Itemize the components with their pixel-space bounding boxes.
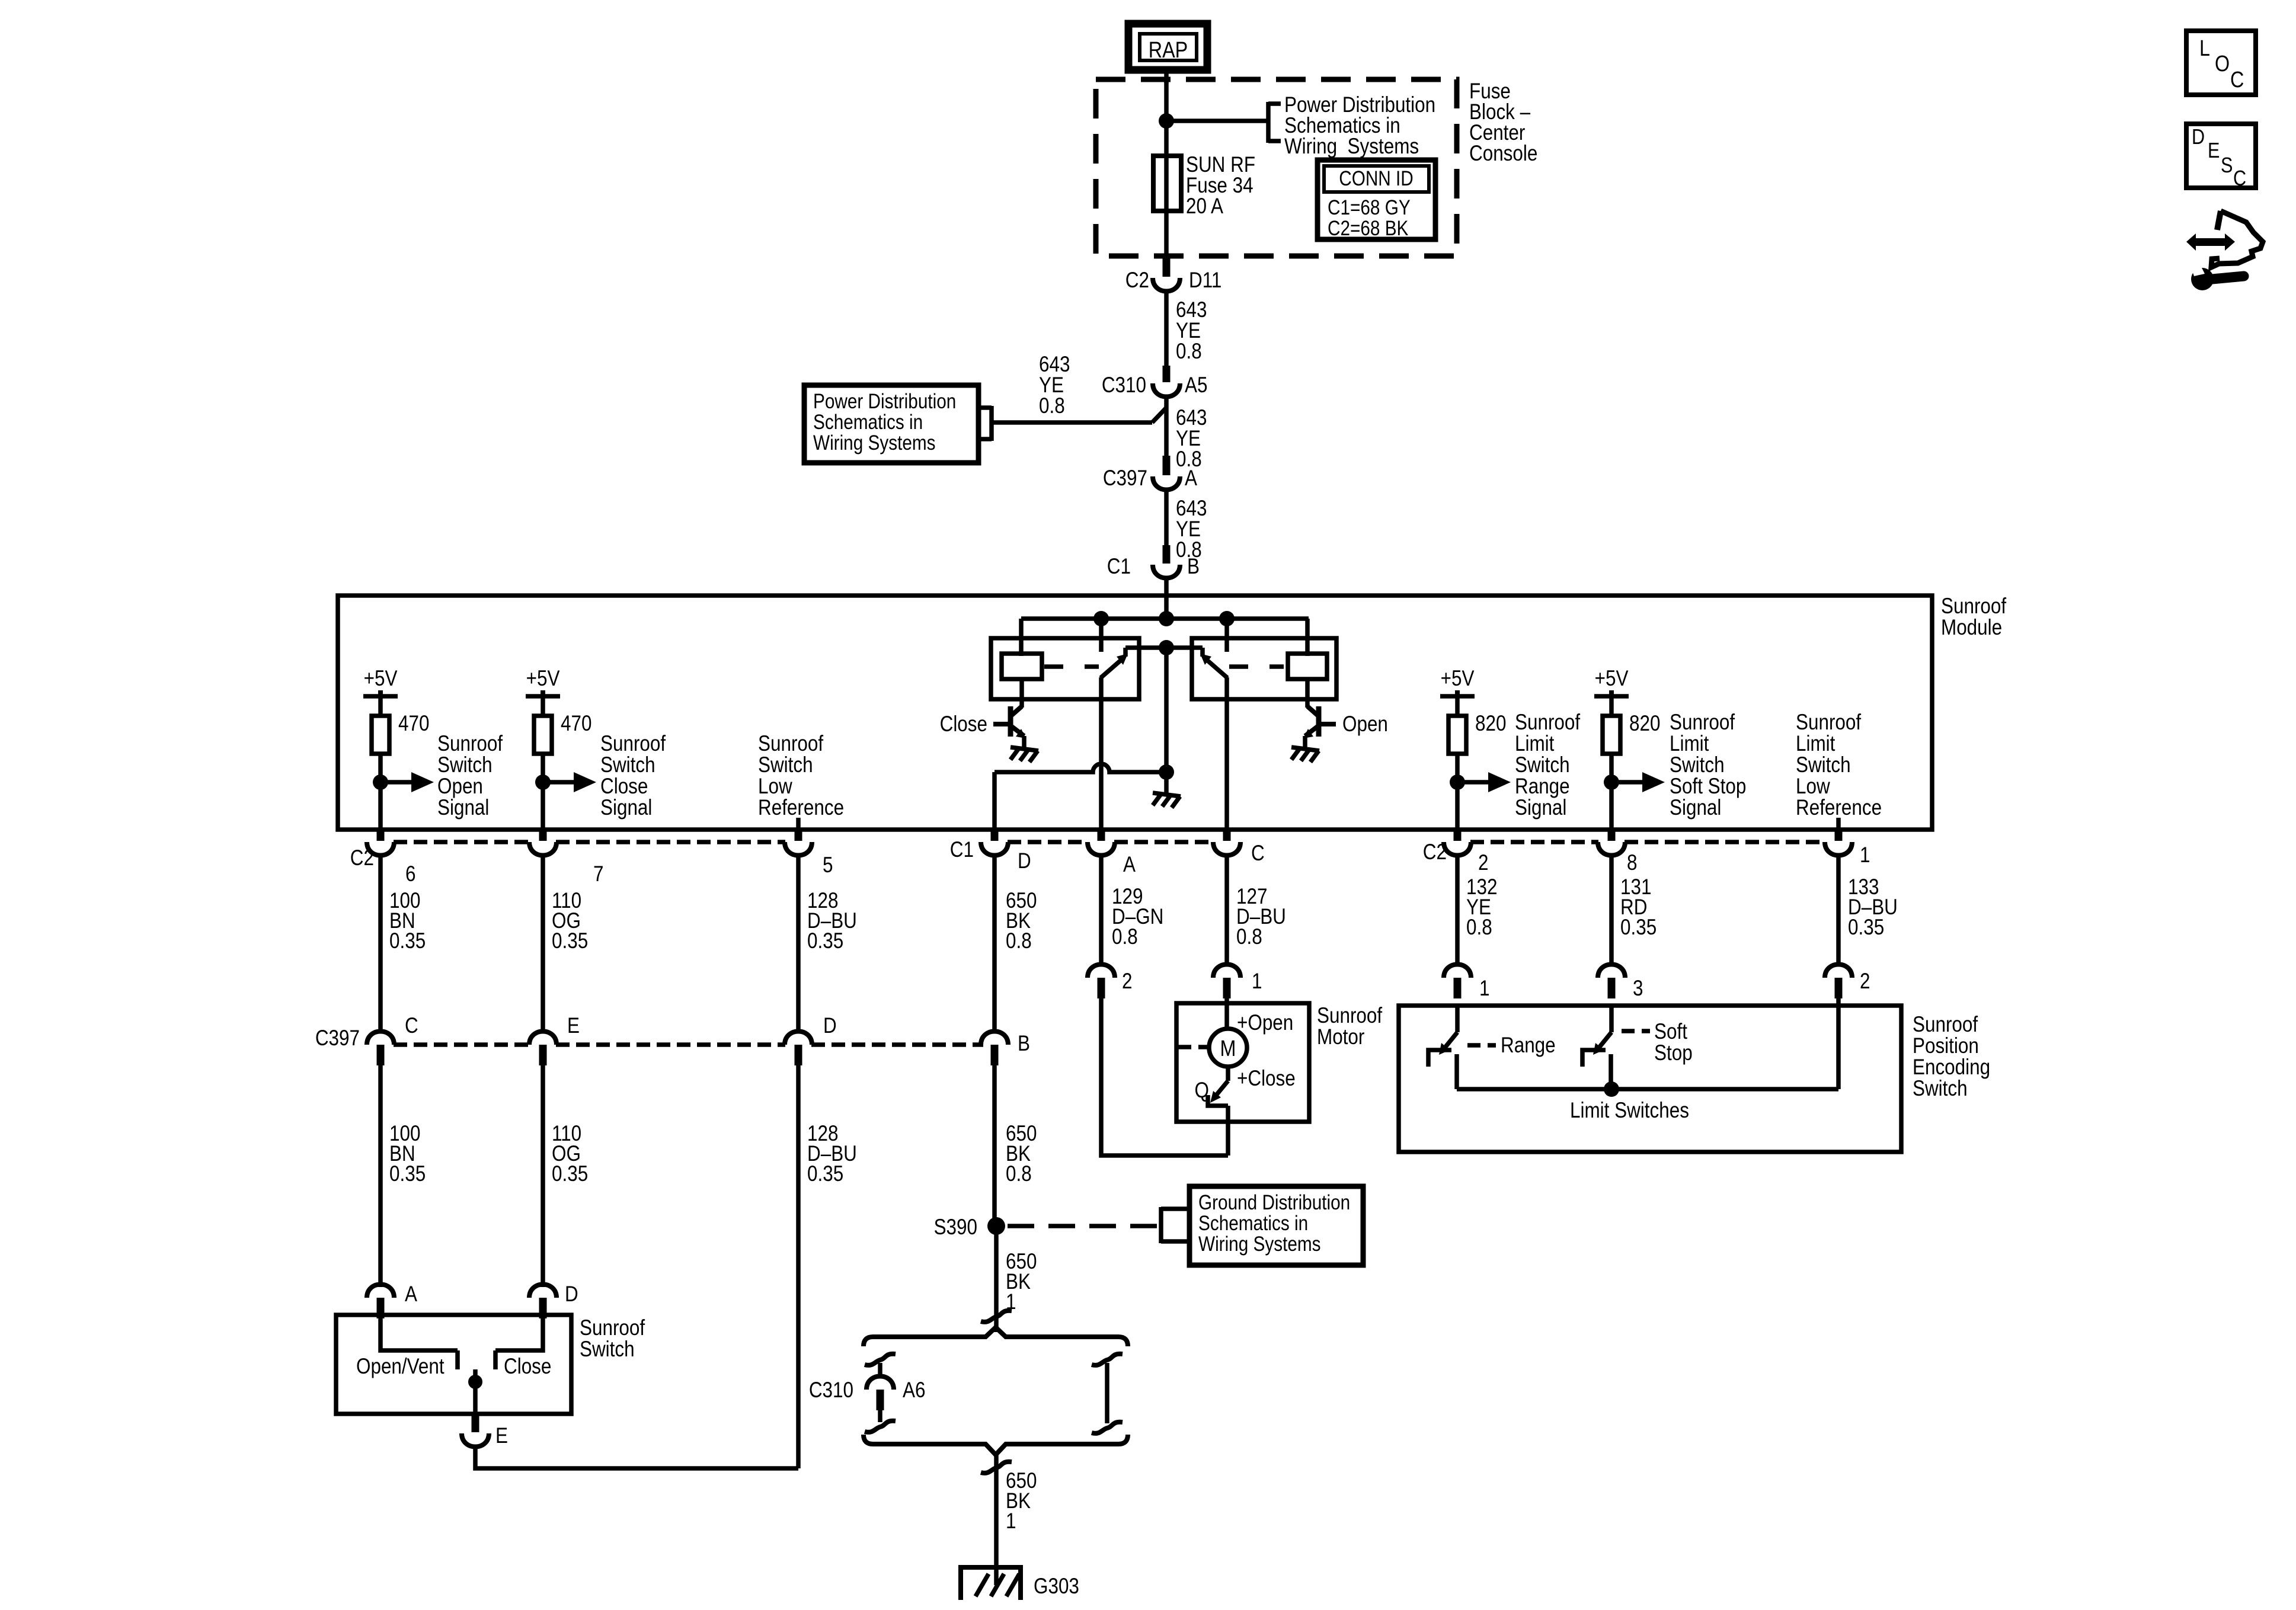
svg-text:5: 5 <box>823 853 833 878</box>
svg-text:7: 7 <box>593 862 603 886</box>
ground G303 <box>961 1567 1021 1600</box>
svg-text:820: 820 <box>1629 712 1660 736</box>
wire limit switch bus <box>1457 1087 1838 1092</box>
wire K2 common jog <box>1200 648 1205 657</box>
svg-text:O: O <box>2215 52 2230 76</box>
icon wrench <box>2191 268 2214 290</box>
svg-text:CONN ID: CONN ID <box>1339 167 1414 190</box>
svg-text:S390: S390 <box>934 1215 977 1240</box>
wire C1 to module <box>1164 577 1169 622</box>
wire 127 D-BU <box>1224 855 1229 965</box>
ground distribution schematics box <box>1189 1186 1363 1265</box>
limit switch Soft Stop <box>1609 1006 1614 1032</box>
svg-text:S: S <box>2221 154 2233 178</box>
svg-text:D11: D11 <box>1189 268 1221 293</box>
svg-text:Close: Close <box>940 712 987 737</box>
wire junction to callout bracket <box>1166 119 1268 123</box>
sunroof motor box <box>1176 1003 1309 1122</box>
connector C397 row cups <box>367 1032 394 1045</box>
node relay common <box>1159 640 1174 655</box>
svg-text:B: B <box>1187 555 1200 579</box>
svg-text:C1: C1 <box>1107 555 1131 579</box>
relay K1 coil <box>1002 654 1042 679</box>
harness break curl lower <box>981 1462 1012 1473</box>
svg-text:C: C <box>1251 841 1265 866</box>
svg-text:6: 6 <box>405 862 415 886</box>
wire 650 BK to S390 <box>992 1065 997 1226</box>
connector sunroof switch pins A D <box>367 1285 394 1298</box>
wire fixed contact A <box>1099 619 1104 652</box>
svg-text:C310: C310 <box>1102 373 1146 398</box>
wire 110 OG lower <box>541 1065 545 1287</box>
wire 650 BK upper <box>992 855 997 1032</box>
connector C1 B <box>1163 545 1171 564</box>
wire 643 YE 0.8 segment 2 <box>1164 396 1169 457</box>
svg-text:A5: A5 <box>1185 373 1207 398</box>
wire module pin 5 <box>796 818 801 830</box>
svg-text:A6: A6 <box>903 1378 925 1403</box>
svg-text:C: C <box>2230 68 2244 92</box>
power distribution schematics box (mid) <box>804 385 978 463</box>
svg-text:C2: C2 <box>1423 840 1447 865</box>
wire K1 coil to Q1 <box>1019 679 1024 708</box>
svg-text:E: E <box>2208 139 2220 163</box>
svg-text:E: E <box>495 1424 508 1448</box>
wire dashed C397 row <box>394 1042 530 1047</box>
wire dashed S390 to ground distribution <box>1008 1224 1160 1228</box>
connector encoder pins 1 3 2 <box>1444 965 1471 978</box>
node bus right <box>1219 611 1235 626</box>
svg-text:C397: C397 <box>315 1026 360 1051</box>
node splice S390 <box>987 1217 1005 1235</box>
svg-text:C397: C397 <box>1103 466 1147 491</box>
sunroof switch contact close <box>495 1317 543 1350</box>
svg-text:820: 820 <box>1475 712 1506 736</box>
wire encoder low reference <box>1836 998 1841 1089</box>
connector C310 A6 inline <box>865 1354 896 1365</box>
wire K1 common jog <box>1123 648 1128 657</box>
wire 650 BK 1 lower <box>994 1455 999 1585</box>
relay K1 switch arm <box>1101 658 1124 678</box>
svg-text:+5V: +5V <box>364 667 398 691</box>
ground module center <box>1153 793 1181 808</box>
wire RAP to fuse block <box>1164 70 1169 83</box>
svg-text:SoftStop: SoftStop <box>1654 1020 1693 1065</box>
wire module pin 1 low ref <box>1836 818 1841 830</box>
svg-text:A: A <box>405 1282 417 1307</box>
svg-text:2: 2 <box>1122 969 1132 994</box>
svg-text:Q: Q <box>1195 1078 1209 1103</box>
motor brush switch Q <box>1226 1067 1230 1081</box>
callout bracket ground distribution <box>1159 1207 1163 1243</box>
node fuse block junction <box>1159 113 1174 129</box>
transistor Q1 Close <box>1012 706 1022 715</box>
wire 131 RD <box>1609 855 1614 965</box>
wire relay common to ground <box>1164 648 1169 774</box>
svg-text:+5V: +5V <box>1441 667 1475 691</box>
relay K1 box <box>991 638 1139 699</box>
relay K2 box <box>1192 638 1336 699</box>
transistor Q2 Open <box>1307 706 1318 715</box>
motor dashed drive link <box>1178 1045 1208 1049</box>
relay K2 link <box>1229 664 1284 669</box>
svg-text:+Open: +Open <box>1237 1011 1293 1035</box>
wire 110 OG upper <box>541 855 545 1032</box>
wire motor open feed <box>1224 998 1229 1030</box>
svg-text:D: D <box>565 1282 578 1307</box>
CONN ID table box <box>1318 160 1435 239</box>
svg-text:C2: C2 <box>350 846 374 870</box>
svg-text:+5V: +5V <box>1595 667 1629 691</box>
svg-text:1: 1 <box>1860 843 1870 868</box>
harness brace bottom <box>864 1435 1128 1455</box>
wire relay common bus <box>1125 645 1203 650</box>
wire 128 D-BU lower <box>796 1065 801 1468</box>
svg-text:G303: G303 <box>1034 1574 1079 1599</box>
svg-text:1: 1 <box>1252 969 1262 994</box>
svg-text:Close: Close <box>504 1355 551 1379</box>
icon DESC box <box>2186 124 2256 188</box>
wire power distribution tap <box>992 420 1152 425</box>
sunroof position encoding switch box <box>1399 1006 1901 1152</box>
node limit switch bus <box>1604 1081 1619 1097</box>
svg-text:470: 470 <box>398 712 429 736</box>
wire fuse block feed <box>1164 79 1169 158</box>
connector C2 D11 <box>1163 256 1171 277</box>
svg-text:+Close: +Close <box>1237 1067 1296 1091</box>
connector motor pins 2 and 1 <box>1088 965 1115 978</box>
wire module pin C <box>1224 677 1229 830</box>
callout bracket power distribution <box>1266 102 1271 143</box>
svg-text:SunroofModule: SunroofModule <box>1941 594 2007 640</box>
svg-text:A: A <box>1123 853 1136 877</box>
svg-text:A: A <box>1185 466 1197 491</box>
motor M circle <box>1209 1029 1247 1067</box>
icon double arrow <box>2186 233 2235 251</box>
ground Q1 <box>1011 747 1038 762</box>
wire 100 BN upper <box>378 855 383 1032</box>
wire dashed connector row 1 <box>394 840 530 844</box>
wire 132 YE <box>1455 855 1460 965</box>
wire module pin A <box>1099 677 1104 830</box>
harness brace top <box>864 1327 1128 1346</box>
icon LOC box <box>2186 31 2256 95</box>
svg-text:C1=68 GYC2=68 BK: C1=68 GYC2=68 BK <box>1328 196 1411 240</box>
wire 650 BK 1 upper <box>994 1226 999 1332</box>
wire fixed contact C <box>1224 619 1229 652</box>
wire motor close return <box>1101 998 1228 1156</box>
wire switch low reference return <box>475 1446 798 1468</box>
wire module pin D return <box>992 772 997 830</box>
svg-text:3: 3 <box>1633 977 1643 1001</box>
relay K2 switch arm <box>1204 658 1227 678</box>
svg-text:C: C <box>2233 167 2246 191</box>
ground Q2 <box>1291 747 1319 762</box>
svg-text:Limit Switches: Limit Switches <box>1570 1099 1689 1123</box>
svg-text:RAP: RAP <box>1149 38 1188 63</box>
icon connector outline <box>2217 211 2221 230</box>
wire K2 coil to Q2 <box>1305 679 1310 708</box>
svg-text:Open: Open <box>1342 712 1388 737</box>
svg-text:M: M <box>1220 1036 1236 1061</box>
harness wire right inline <box>1092 1354 1123 1365</box>
wire 128 D-BU upper <box>796 855 801 1032</box>
harness break curl upper <box>981 1311 1012 1322</box>
svg-text:B: B <box>1018 1032 1030 1056</box>
connector sunroof switch pin E <box>472 1414 479 1432</box>
wire 100 BN lower <box>378 1065 383 1287</box>
wire fuse to connector C2 <box>1164 211 1169 257</box>
wire to center ground <box>1164 772 1169 793</box>
svg-text:C2: C2 <box>1125 268 1149 293</box>
svg-text:1: 1 <box>1479 977 1489 1001</box>
svg-text:D: D <box>823 1014 837 1038</box>
wire 643 YE 0.8 segment 1 <box>1164 290 1169 367</box>
sunroof module box <box>338 596 1932 830</box>
fuse SUN RF Fuse 34 20A <box>1153 156 1181 211</box>
fuse block dashed outline box <box>1096 79 1457 256</box>
svg-text:+5V: +5V <box>526 667 560 691</box>
svg-text:D: D <box>1018 849 1031 873</box>
wire 643 YE 0.8 segment 3 <box>1164 489 1169 546</box>
sunroof switch common pole <box>473 1369 478 1383</box>
svg-text:C: C <box>405 1014 418 1038</box>
svg-text:L: L <box>2199 36 2210 61</box>
limit switch Soft Stop dashes <box>1622 1029 1650 1033</box>
connector C310 A5 <box>1163 366 1171 382</box>
svg-text:Open/Vent: Open/Vent <box>356 1355 445 1379</box>
svg-text:2: 2 <box>1478 851 1488 875</box>
svg-text:Range: Range <box>1501 1033 1556 1058</box>
sunroof switch box <box>336 1315 571 1414</box>
svg-text:470: 470 <box>561 712 591 736</box>
svg-text:E: E <box>567 1014 580 1038</box>
svg-text:C1: C1 <box>950 838 974 862</box>
callout bracket mid <box>989 406 994 441</box>
svg-text:8: 8 <box>1627 851 1637 875</box>
limit switch Range <box>1455 1006 1460 1032</box>
wire 133 D-BU <box>1836 855 1841 965</box>
node bus left <box>1093 611 1109 626</box>
svg-text:C310: C310 <box>809 1378 853 1403</box>
svg-text:2: 2 <box>1860 969 1870 994</box>
wire 129 D-GN <box>1099 855 1104 965</box>
wire module feed bus <box>1021 616 1309 621</box>
connector C397 A <box>1163 456 1171 475</box>
power feed keyword box RAP <box>1128 24 1207 70</box>
node motor return junction <box>1159 764 1174 780</box>
relay K1 link <box>1044 664 1099 669</box>
sunroof switch contact open/vent <box>380 1317 458 1350</box>
svg-text:D: D <box>2192 126 2205 149</box>
connector row C2 C1 C2 cups <box>377 830 385 841</box>
node bus center <box>1159 611 1174 626</box>
limit switch Range dashes <box>1467 1043 1496 1048</box>
relay K2 coil <box>1288 654 1327 679</box>
